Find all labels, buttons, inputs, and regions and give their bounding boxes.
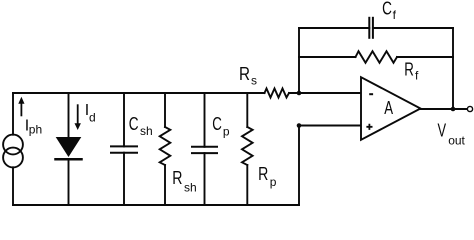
wire R_s to inverting input (289, 92, 361, 94)
node inverting input junction (297, 91, 302, 96)
current source I_ph (3, 135, 23, 155)
wire C_sh branch upper (123, 93, 125, 146)
photodiode D (anode triangle) (56, 137, 82, 157)
op-amp plus sign (366, 124, 372, 130)
op-amp minus sign (369, 93, 373, 95)
svg-text:R: R (239, 64, 250, 84)
arrow I_d (77, 104, 79, 124)
wire R_sh branch lower (164, 165, 166, 205)
capacitor C_p plates (192, 146, 217, 148)
svg-text:V: V (438, 121, 447, 141)
capacitor C_f plates (368, 18, 370, 38)
capacitor C_sh plates (111, 145, 137, 147)
svg-text:C: C (212, 114, 222, 134)
wire feedback right vertical (452, 28, 454, 109)
svg-text:C: C (382, 0, 392, 18)
node output junction (451, 107, 456, 112)
svg-text:R: R (172, 168, 182, 188)
wire non-inverting input (299, 125, 361, 127)
wire left branch lower (12, 167, 14, 205)
wire top rail (13, 92, 265, 94)
arrow I_ph (20, 103, 22, 117)
wire R_p branch upper (246, 93, 248, 127)
wire C_f left (299, 27, 369, 29)
wire left branch upper (12, 93, 14, 135)
svg-text:p: p (270, 175, 277, 189)
wire R_f left (299, 56, 356, 58)
svg-text:d: d (89, 111, 96, 125)
svg-text:R: R (258, 164, 268, 184)
terminal V_out circle (467, 106, 472, 111)
wire C_p branch lower (204, 153, 206, 205)
resistor R_sh (160, 127, 171, 165)
svg-text:p: p (223, 124, 230, 138)
wire R_f right (397, 56, 453, 58)
wire C_sh branch lower (123, 153, 125, 205)
svg-text:C: C (129, 114, 139, 134)
photodiode cathode bar (56, 158, 82, 161)
svg-text:A: A (384, 98, 393, 118)
wire diode branch lower (68, 160, 70, 205)
wire R_sh branch upper (164, 93, 166, 127)
svg-text:s: s (251, 74, 257, 88)
wire C_f right (373, 27, 453, 29)
svg-text:sh: sh (140, 124, 153, 138)
resistor R_s (265, 89, 290, 98)
svg-text:ph: ph (29, 123, 42, 137)
wire feedback left vertical (298, 28, 300, 93)
resistor R_p (242, 127, 253, 165)
wire diode branch upper (68, 93, 70, 137)
wire R_p branch lower (246, 165, 248, 205)
wire C_p branch upper (204, 93, 206, 147)
op-amp U1 triangle (361, 77, 421, 140)
svg-text:R: R (404, 59, 414, 79)
wire bottom rail (13, 204, 299, 206)
svg-text:out: out (448, 133, 465, 147)
wire output (421, 108, 468, 110)
svg-text:sh: sh (184, 180, 197, 194)
node non-inverting input junction (297, 123, 302, 128)
resistor R_f (356, 51, 398, 63)
wire non-inverting to ground rail (298, 126, 300, 206)
